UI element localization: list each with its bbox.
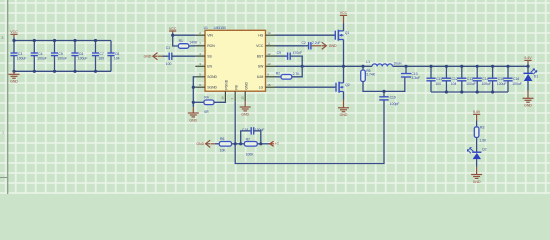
power port VCC (Q1 drain) <box>340 11 348 31</box>
svg-text:100uF: 100uF <box>482 82 492 86</box>
junction top rail <box>12 39 15 42</box>
wire SGND to R4 <box>193 101 204 103</box>
svg-text:D2: D2 <box>482 148 486 152</box>
svg-text:0R: 0R <box>204 110 209 114</box>
svg-text:C18: C18 <box>242 128 248 132</box>
svg-text:VCC: VCC <box>340 11 348 15</box>
svg-text:C12: C12 <box>452 77 458 81</box>
wire bottom rail of input cap bank <box>14 70 111 72</box>
power port GND (divider) <box>196 140 210 147</box>
junction top rail <box>33 39 36 42</box>
pin GND (bottom 15) <box>241 82 249 102</box>
node snubber tap <box>361 65 364 68</box>
svg-text:U1: U1 <box>204 26 208 30</box>
svg-text:GND: GND <box>340 113 348 117</box>
wire LG to Q2 gate <box>276 86 337 88</box>
svg-text:Q1: Q1 <box>345 31 350 35</box>
svg-text:3.3uF: 3.3uF <box>411 76 420 80</box>
svg-text:C13: C13 <box>467 77 473 81</box>
svg-text:12: 12 <box>267 52 271 56</box>
capacitor C4 <box>31 41 47 72</box>
ground (input cap bank) <box>9 71 20 83</box>
svg-text:C16: C16 <box>513 77 519 81</box>
svg-text:BST: BST <box>257 54 264 58</box>
resistor R1 140K <box>178 39 198 48</box>
svg-text:R2: R2 <box>276 72 280 76</box>
wire top rail of input cap bank <box>14 40 111 42</box>
transistor Q1 <box>335 30 349 41</box>
pin PGND (bottom 16) <box>221 79 229 101</box>
wire output cap bank bottom rail <box>431 91 508 93</box>
svg-text:16: 16 <box>221 96 225 100</box>
svg-text:GND: GND <box>473 180 481 184</box>
svg-text:4: 4 <box>2 131 4 135</box>
junction top rail <box>73 39 76 42</box>
ground (D2) <box>471 159 482 184</box>
wire R4 to PGND pin <box>214 101 225 102</box>
svg-text:GND: GND <box>144 54 152 58</box>
junction bottom rail <box>445 90 448 93</box>
svg-text:15: 15 <box>241 96 245 100</box>
svg-text:15: 15 <box>267 83 271 87</box>
wire R5 to C10 bottom <box>363 77 405 91</box>
svg-text:R4: R4 <box>204 96 208 100</box>
svg-text:R7: R7 <box>246 137 250 141</box>
node SW/MOSFET junction <box>342 65 345 68</box>
pin VCC (right 11) <box>256 42 275 48</box>
power port VCC (U1 VIN) <box>169 27 177 35</box>
svg-text:C15: C15 <box>498 77 504 81</box>
pin RON (left 7) <box>195 42 215 48</box>
pin HG (right 10) <box>258 31 275 37</box>
resistor R4 0R <box>204 96 214 115</box>
svg-text:VCC: VCC <box>169 27 177 31</box>
svg-text:C11: C11 <box>436 77 442 81</box>
svg-text:C7: C7 <box>99 52 103 56</box>
wire VCC to R1 <box>173 35 179 46</box>
svg-text:L1: L1 <box>366 60 370 64</box>
capacitor C16 <box>503 66 522 92</box>
svg-text:5.4V: 5.4V <box>524 56 532 60</box>
capacitor C11 <box>426 66 442 92</box>
capacitor C2 2.2uF <box>301 41 320 49</box>
junction output rail <box>429 65 432 68</box>
power port GND (soft start) <box>144 53 158 60</box>
wire HG to Q1 gate <box>276 34 336 36</box>
svg-text:R1: R1 <box>179 39 183 43</box>
svg-text:140K: 140K <box>189 40 198 44</box>
svg-text:GND: GND <box>10 80 18 84</box>
capacitor C13 <box>457 66 476 92</box>
svg-text:GND: GND <box>196 142 204 146</box>
wire R3 to D2 <box>476 138 478 153</box>
resistor R2 2.7K <box>276 72 301 80</box>
junction output rail <box>476 65 479 68</box>
svg-text:Q2: Q2 <box>345 83 350 87</box>
resistor R3 1.5K <box>474 126 487 143</box>
wire FB pin down <box>234 101 236 144</box>
svg-text:2.2uF: 2.2uF <box>312 41 321 45</box>
wire VIN <box>173 34 196 36</box>
svg-text:100uF: 100uF <box>57 57 67 61</box>
capacitor C1 100 <box>158 46 195 66</box>
wire R7 to output tap <box>257 143 270 145</box>
capacitor C5 <box>51 41 67 72</box>
capacitor C6 <box>71 41 87 72</box>
wire Q2 drain to SW rail <box>343 66 345 83</box>
svg-text:PGND: PGND <box>225 79 229 89</box>
junction output rail <box>445 65 448 68</box>
wire SGND pins tie <box>193 77 195 108</box>
svg-text:VCC: VCC <box>10 30 18 34</box>
svg-text:100pF: 100pF <box>390 102 400 106</box>
pin FB (bottom 7) <box>231 85 239 102</box>
svg-text:1.5K: 1.5K <box>479 139 487 143</box>
wire L1 to output rail <box>393 65 529 67</box>
svg-text:104: 104 <box>451 82 457 86</box>
junction output rail <box>506 65 509 68</box>
svg-text:100uF: 100uF <box>37 57 47 61</box>
resistor R6 10K <box>211 137 232 152</box>
svg-text:C1: C1 <box>166 46 170 50</box>
capacitor C8 <box>107 41 119 72</box>
wire R2 to SW node <box>292 66 302 77</box>
svg-text:SGND: SGND <box>207 85 217 89</box>
LED D1 <box>523 66 538 81</box>
power port 5.4V (indicator) <box>473 110 481 127</box>
pin EN (left 3) <box>195 62 212 68</box>
pin LG (right 15) <box>259 83 276 89</box>
svg-text:C6: C6 <box>79 52 83 56</box>
svg-text:R6: R6 <box>220 137 224 141</box>
capacitor C10 3.3uF <box>401 66 420 80</box>
svg-text:C8: C8 <box>115 52 119 56</box>
pin ILIM (right 9) <box>257 73 276 79</box>
junction bottom rail <box>73 70 76 73</box>
capacitor C19 100pF <box>379 91 399 106</box>
svg-text:VIN: VIN <box>207 33 213 37</box>
pin SGND (left 5) <box>195 73 217 79</box>
svg-text:11: 11 <box>267 42 270 46</box>
capacitor C3 <box>10 41 26 72</box>
wire C9 to SW node <box>291 56 303 66</box>
ground (D1) <box>523 81 534 108</box>
svg-text:EN: EN <box>207 65 212 69</box>
node snubber/C19 junction <box>382 90 385 93</box>
svg-text:VCC: VCC <box>256 44 264 48</box>
svg-text:104: 104 <box>114 57 120 61</box>
pin BST (right 12) <box>257 52 276 58</box>
svg-text:10K: 10K <box>220 148 227 152</box>
wire Q1 source to SW rail <box>343 40 345 67</box>
svg-text:GND: GND <box>241 112 249 116</box>
transistor Q2 <box>336 82 350 93</box>
svg-text:100: 100 <box>166 62 172 66</box>
wire R1 to RON <box>189 45 196 47</box>
net label +T <box>270 141 280 146</box>
node output rail end <box>526 65 529 68</box>
junction bottom rail <box>94 70 97 73</box>
svg-text:GND: GND <box>524 104 532 108</box>
svg-text:D1: D1 <box>534 75 538 79</box>
node BST/SW junction <box>301 65 304 68</box>
wire VCC pin <box>276 45 305 47</box>
svg-text:5.4V: 5.4V <box>473 110 481 114</box>
power port GND (VCC decoupling) <box>311 45 321 47</box>
svg-text:100: 100 <box>98 57 104 61</box>
ground (SGND) <box>188 107 199 122</box>
LED D2 <box>467 147 486 159</box>
IC U1 LM3150 <box>204 26 266 91</box>
svg-text:LM3150: LM3150 <box>214 26 226 30</box>
svg-text:2.7K: 2.7K <box>293 72 301 76</box>
resistor R5 2.74K <box>361 66 376 81</box>
svg-text:100uF: 100uF <box>512 82 522 86</box>
capacitor C7 <box>92 41 104 72</box>
pin VIN (left 2) <box>195 31 213 37</box>
ground (U1 GND pin) <box>240 101 251 116</box>
pin SS (left 4) <box>195 52 212 58</box>
svg-text:100uF: 100uF <box>466 82 476 86</box>
inductor L1 10uH <box>366 60 402 66</box>
svg-text:C4: C4 <box>38 52 42 56</box>
node FB junction <box>234 142 237 145</box>
capacitor C14 <box>473 66 492 92</box>
svg-text:100uF: 100uF <box>78 57 88 61</box>
svg-text:13: 13 <box>267 62 271 66</box>
junction bottom rail <box>491 90 494 93</box>
svg-text:100: 100 <box>435 82 441 86</box>
node SGND junction <box>192 86 195 89</box>
junction bottom rail <box>460 90 463 93</box>
svg-text:10: 10 <box>267 31 271 35</box>
junction bottom rail <box>33 70 36 73</box>
node SGND/R4 junction <box>192 101 195 104</box>
capacitor C9 470nF <box>277 51 303 60</box>
svg-text:GND: GND <box>329 44 337 48</box>
svg-text:LG: LG <box>259 85 264 89</box>
svg-text:C9: C9 <box>277 51 281 55</box>
node VIN junction <box>171 34 174 37</box>
svg-text:100uF: 100uF <box>497 82 507 86</box>
svg-text:SW: SW <box>258 65 264 69</box>
ground (Q2 source) <box>338 92 349 118</box>
wire BST <box>276 55 288 57</box>
capacitor C15 <box>488 66 507 92</box>
power port VCC (input rail) <box>10 30 18 40</box>
svg-text:C2: C2 <box>301 41 305 45</box>
svg-text:C5: C5 <box>58 52 62 56</box>
svg-text:SGND: SGND <box>207 75 217 79</box>
wire feedback loop <box>235 103 384 164</box>
junction bottom rail <box>53 70 56 73</box>
svg-text:100uF: 100uF <box>17 57 27 61</box>
junction top rail <box>53 39 56 42</box>
svg-text:470nF: 470nF <box>293 51 303 55</box>
node L1 output junction <box>404 65 407 68</box>
svg-text:C14: C14 <box>482 77 488 81</box>
svg-text:10uH: 10uH <box>393 61 402 65</box>
resistor R7 100K <box>244 137 257 156</box>
svg-text:100pF: 100pF <box>255 128 265 132</box>
svg-text:SS: SS <box>207 54 212 58</box>
capacitor C18 100pF <box>241 127 265 144</box>
node R7/C18 junction <box>259 142 262 145</box>
capacitor C12 <box>442 66 458 92</box>
svg-text:2.74K: 2.74K <box>366 73 376 77</box>
svg-text:RON: RON <box>207 44 215 48</box>
junction output rail <box>491 65 494 68</box>
svg-text:FB: FB <box>235 85 239 90</box>
svg-text:GND: GND <box>245 82 249 90</box>
junction top rail <box>94 39 97 42</box>
svg-text:R3: R3 <box>480 126 484 130</box>
junction bottom rail <box>476 90 479 93</box>
svg-text:C19: C19 <box>390 95 396 99</box>
pin SGND (left 6) <box>195 83 217 89</box>
svg-text:C3: C3 <box>18 52 22 56</box>
svg-text:HG: HG <box>258 33 263 37</box>
junction bottom rail <box>12 70 15 73</box>
wire R6 to R7 <box>232 143 245 145</box>
wire SW node <box>276 65 373 67</box>
node C18 junction <box>239 142 242 145</box>
pin SW (right 13) <box>258 62 276 68</box>
junction output rail <box>460 65 463 68</box>
svg-text:ILIM: ILIM <box>257 75 264 79</box>
svg-text:100K: 100K <box>246 152 255 156</box>
power port 5.4V (output) <box>524 56 532 66</box>
svg-text:GND: GND <box>189 118 197 122</box>
